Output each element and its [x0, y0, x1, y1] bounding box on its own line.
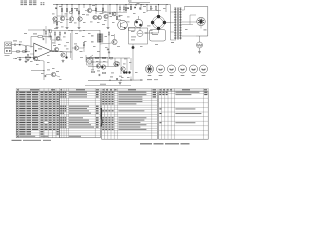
speaker SP1	[199, 36, 201, 42]
capacitor C2	[139, 7, 141, 9]
wire x50.5	[50, 33, 52, 36]
wire stub	[130, 77, 132, 81]
caption bottom-right	[140, 143, 152, 144]
wire op-amp inputs	[30, 53, 34, 55]
resistor R4	[56, 22, 57, 25]
resistor R26	[108, 32, 109, 35]
label BR1	[147, 25, 151, 28]
resistor R15	[45, 31, 46, 34]
ground G5	[199, 48, 201, 51]
wire drop to ground	[107, 5, 109, 26]
table B rows	[60, 90, 101, 92]
wire vertical x100	[99, 30, 101, 58]
transistor Q5	[87, 8, 91, 12]
table right column rules	[161, 89, 163, 140]
wire y12 right	[102, 11, 127, 13]
wire interconnect cluster A	[57, 15, 67, 17]
wire to vertical	[38, 60, 44, 61]
label cluster A values	[52, 13, 55, 16]
jack J6	[200, 65, 208, 73]
resistor R22	[17, 51, 20, 52]
parts table middle	[102, 89, 158, 140]
label cluster	[91, 69, 94, 72]
wire input2	[16, 44, 19, 46]
wire y58 bus	[86, 57, 130, 59]
resistor R29	[119, 7, 120, 10]
diode D6	[128, 7, 129, 9]
label cluster2	[63, 36, 66, 39]
transistor Q4	[78, 17, 82, 21]
table middle ink smudge	[100, 108, 103, 127]
wire top feed	[166, 4, 171, 6]
parts table right	[159, 89, 209, 140]
resistor R34	[155, 7, 156, 10]
resistor R17	[59, 32, 60, 35]
capacitor C15	[118, 15, 120, 17]
ground G9	[19, 58, 21, 59]
diode D1	[56, 7, 57, 9]
input jack J1	[5, 42, 12, 48]
label	[57, 36, 60, 39]
table right header	[159, 89, 209, 92]
resistor R6	[95, 8, 96, 11]
transistor Q1	[53, 17, 57, 21]
wire +V top rail	[53, 4, 168, 6]
label T1 plus	[91, 35, 94, 38]
wire secondary taps	[182, 9, 185, 11]
misc value labels	[54, 27, 57, 30]
ground G10	[119, 82, 121, 83]
resistor R24	[92, 71, 95, 72]
diode D4	[117, 78, 118, 80]
ground G4	[107, 26, 109, 27]
resistor R19	[103, 57, 106, 58]
wire x120 x124	[119, 5, 121, 7]
transistor Q17	[51, 72, 55, 76]
resistor R31	[50, 30, 51, 33]
input jack J1b	[5, 48, 12, 53]
tube V1	[137, 31, 143, 37]
dark cap C11	[128, 71, 130, 73]
label mid	[53, 44, 56, 47]
wire y85.5 label row	[85, 85, 131, 87]
label right of T1	[111, 34, 114, 37]
transistor Q18	[96, 64, 100, 68]
wire y70.5	[31, 70, 44, 72]
transformer T2 secondary winding	[179, 8, 181, 40]
capacitor C8 electrolytic	[132, 46, 135, 49]
wire op-amp output	[52, 50, 59, 52]
resistor R30	[123, 7, 124, 10]
ground G2	[66, 26, 68, 27]
transistor Q15	[112, 39, 117, 44]
rail junction dots	[56, 4, 57, 5]
table middle column rules	[104, 89, 106, 140]
diode D5	[19, 44, 20, 46]
wire y62	[88, 61, 108, 63]
resistor R18	[96, 57, 99, 58]
transistor Q9	[112, 12, 116, 16]
capacitor C7	[107, 48, 109, 50]
label bottom-left	[47, 69, 50, 72]
resistor R7	[102, 8, 103, 11]
wire y30 upper	[28, 29, 52, 31]
wire x109	[108, 35, 110, 52]
wire q15	[100, 43, 112, 44]
wire x133 down	[132, 44, 134, 60]
jack J2	[157, 65, 165, 73]
wire above bridge	[147, 10, 161, 12]
wire vertical x72	[71, 30, 73, 60]
wire q17	[46, 74, 51, 76]
jack J3	[168, 65, 176, 73]
table B header	[60, 89, 101, 92]
resistor R2	[66, 9, 67, 12]
transistor Q22	[121, 67, 125, 71]
table middle rows	[102, 90, 158, 92]
wire primary vertical	[170, 5, 172, 40]
wire cluster B	[85, 10, 87, 12]
wire x133 down	[132, 60, 134, 80]
resistor R28	[76, 8, 77, 11]
capacitor C1	[109, 12, 111, 14]
transistor Q21	[56, 37, 60, 41]
wire fan leads	[200, 26, 202, 29]
wire y66.5	[88, 66, 116, 68]
wire x44 down	[43, 71, 45, 81]
table A column rules	[18, 89, 20, 138]
label input2	[36, 59, 40, 62]
capacitor C5	[42, 38, 44, 40]
transformer T2 core	[176, 8, 178, 40]
capacitor C12	[64, 32, 66, 34]
wire x86 left edge	[85, 55, 87, 62]
op-amp U1	[34, 43, 52, 58]
wire x84	[83, 31, 85, 43]
wire cluster C	[129, 2, 150, 4]
capacitor C16	[49, 35, 51, 37]
motor/fan M1	[197, 17, 205, 25]
transformer T2 primary winding	[174, 8, 176, 40]
label x48	[48, 36, 51, 39]
wire primary taps	[171, 11, 175, 13]
capacitor C13	[98, 74, 100, 76]
label feedback	[33, 33, 37, 36]
dark cap C10	[123, 71, 125, 73]
diagonal wire	[86, 55, 93, 60]
table B column rules	[61, 89, 63, 138]
label U1	[38, 48, 42, 51]
wire cluster	[54, 35, 56, 44]
feedback resistor R13	[38, 36, 42, 38]
label cluster B	[92, 4, 95, 7]
label pots	[147, 78, 152, 81]
shield box preamp	[129, 28, 148, 44]
resistor R32	[83, 43, 84, 46]
note text block top-left	[21, 1, 24, 2]
rotary switch S1	[145, 65, 153, 73]
wire bridge bottom	[158, 28, 160, 33]
transistor Q10 driver	[118, 20, 128, 30]
transistor Q12	[54, 47, 58, 51]
ground G6	[25, 50, 27, 51]
transistor Q3	[69, 17, 73, 21]
transistor Q20	[114, 61, 119, 66]
resistor R5	[78, 11, 79, 14]
resistor R9	[125, 8, 126, 11]
wire x70.5 double	[70, 33, 72, 58]
wire q14	[72, 47, 74, 49]
transistor Q13	[61, 53, 65, 57]
transistor Q6	[93, 15, 97, 19]
wire y30	[52, 30, 100, 32]
resistor R8	[116, 17, 117, 20]
diode D3	[30, 57, 31, 59]
wire x46	[45, 34, 47, 44]
resistor R25	[103, 72, 106, 73]
label Q11	[131, 30, 135, 33]
resistor R10	[130, 7, 131, 10]
wire y58.5 dots	[13, 58, 17, 60]
label in box	[131, 30, 135, 33]
wire y57.5 left	[17, 57, 36, 59]
resistor R12 vertical	[25, 47, 26, 50]
transformer T1 core	[98, 34, 101, 43]
resistor R27	[71, 8, 72, 11]
transistor Q16	[33, 56, 37, 60]
wire input3	[21, 45, 33, 47]
table right rows top	[159, 90, 209, 92]
transistor Q14	[74, 46, 78, 50]
diode D2	[135, 7, 136, 9]
table A rows	[16, 90, 59, 92]
resistor R33	[150, 7, 151, 10]
transistor Q19	[101, 65, 105, 69]
wire rail drops	[56, 5, 58, 26]
label relay	[152, 33, 158, 36]
wire loop right	[184, 7, 207, 37]
wire y57	[86, 57, 108, 59]
capacitor C9	[44, 75, 46, 77]
table A header	[16, 89, 59, 92]
caption bottom-left	[12, 140, 22, 141]
ground G1	[56, 26, 58, 27]
resistor R1	[61, 9, 62, 12]
wire input	[12, 44, 14, 46]
parts table left B	[60, 89, 101, 138]
label input	[13, 40, 17, 43]
feedback wire	[31, 36, 38, 38]
transistor Q2	[60, 16, 64, 20]
label cluster C	[128, 0, 132, 2]
resistor R14 below	[27, 55, 28, 58]
resistor R20	[110, 57, 113, 58]
relay box K1	[150, 30, 166, 42]
resistor R3	[70, 12, 73, 13]
table A bottom row	[16, 134, 59, 136]
label Q10	[118, 19, 121, 22]
ground G3	[78, 26, 80, 27]
capacitor C6 electrolytic	[65, 56, 67, 58]
ground G7	[25, 60, 27, 61]
wire op-amp output2	[52, 51, 73, 54]
table right sparse rows	[159, 97, 209, 99]
jack J5	[190, 65, 198, 73]
components below op-amp	[25, 56, 27, 58]
jack J4	[179, 65, 187, 73]
ground G8	[62, 60, 64, 61]
capacitor C14	[108, 51, 110, 53]
transistor Q8	[104, 14, 108, 18]
parts table left A	[16, 89, 59, 138]
wire bridge to right	[164, 22, 170, 24]
capacitor C3	[14, 44, 16, 46]
vertical wires cluster	[92, 58, 94, 70]
transistor Q7	[97, 15, 101, 19]
wire y80.5	[88, 79, 143, 82]
transistor Q11 power	[134, 19, 142, 27]
table middle header	[102, 89, 158, 92]
wire row y51.5	[12, 51, 30, 53]
bridge rectifier BR1	[152, 16, 164, 28]
label transformer	[171, 41, 174, 44]
resistor R16	[54, 32, 55, 35]
meter M2	[88, 60, 92, 64]
resistor R23	[23, 51, 26, 52]
box under Q10	[129, 27, 136, 31]
table B bottom row	[60, 134, 101, 136]
